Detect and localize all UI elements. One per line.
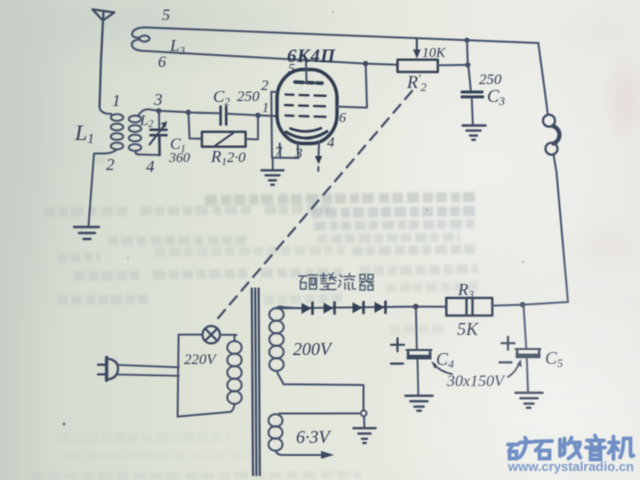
transformer core: [252, 289, 260, 476]
ground (C5): [516, 393, 543, 408]
glyph 音: [586, 436, 605, 460]
svg-text:6·3V: 6·3V: [296, 427, 332, 447]
C5 minus sign: [500, 361, 512, 363]
wire R3 right lead: [492, 304, 522, 307]
transformer secondary 200V winding: [269, 308, 283, 371]
tube pin 3 lead: [297, 144, 300, 158]
antenna: [93, 9, 115, 107]
tap terminal circle: [361, 410, 367, 416]
junction dot line A to C3 branch: [464, 38, 469, 43]
diode D1: [302, 303, 313, 314]
wire C4 branch down: [415, 307, 418, 350]
glyph 器: [360, 275, 374, 291]
potentiometer R2' body: [398, 60, 438, 72]
transformer 6.3V winding: [269, 414, 283, 450]
tube grid rows: [285, 95, 326, 117]
glyph 矿: [508, 438, 532, 459]
wire antenna to L1 top: [100, 107, 112, 114]
wire link lineA to C3 node: [466, 40, 469, 65]
tube plate lead pin 5: [305, 60, 308, 82]
wire to C2 left plate: [188, 112, 219, 115]
svg-text:200V: 200V: [293, 339, 333, 359]
tube plate (anode): [295, 82, 322, 83]
glyph 流: [339, 274, 356, 290]
wire C4 to ground: [417, 360, 420, 395]
svg-text:250: 250: [237, 89, 260, 105]
diode D4: [375, 302, 386, 313]
potentiometer arrow onto R2': [413, 38, 421, 58]
ground (C3): [463, 126, 486, 140]
capacitor C3: [462, 92, 483, 97]
wire 6.3V bottom with heater arrow: [276, 451, 322, 455]
glyph 石: [534, 441, 552, 459]
primary loop with lamp: [178, 335, 231, 417]
wire rectifier row: [274, 307, 416, 309]
svg-text:4: 4: [146, 157, 155, 176]
glyph 机: [609, 437, 634, 460]
svg-text:5: 5: [162, 7, 170, 24]
ground (heater tap): [354, 428, 376, 443]
tube 6К4П envelope: [277, 70, 337, 144]
glyph 收: [560, 438, 581, 459]
transformer primary winding: [227, 335, 241, 412]
wire L1 bottom to ground: [89, 150, 118, 227]
svg-text:6: 6: [158, 54, 166, 71]
wire L2 bottom to C1 bottom rail: [136, 151, 160, 156]
wire C3 to ground: [472, 98, 473, 125]
svg-text:6: 6: [339, 111, 346, 126]
capacitor C5 electrolytic: [516, 349, 541, 358]
wire 200V bottom to tap: [277, 371, 364, 411]
capacitor C2: [221, 107, 227, 125]
svg-text:5: 5: [288, 62, 295, 77]
glyph 整: [320, 273, 336, 290]
wire 200V top to rectifier: [277, 307, 302, 309]
wire L2 top to node 3: [138, 109, 159, 116]
watermark 矿石收音机 (hand-drawn glyphs, blue): [508, 436, 634, 460]
coil L3 hairpin: [132, 27, 150, 51]
tube pin 4 lead with heater arrow: [318, 142, 320, 156]
resistor R3: [446, 298, 492, 316]
svg-text:4: 4: [327, 135, 335, 151]
diode D3: [353, 302, 364, 313]
junction dot R3 right: [520, 302, 526, 308]
wire R2' right lead: [438, 64, 468, 66]
photo specks: [62, 11, 524, 426]
junction dot R3 left: [413, 304, 419, 310]
glyph 硒: [299, 275, 318, 289]
photo exposure lightening bottom-right: [430, 225, 640, 455]
wire line A corner down to phones: [538, 43, 548, 115]
C5 plus sign: [502, 337, 515, 350]
wire tap to ground: [363, 416, 365, 427]
tube cathode arc: [291, 128, 322, 131]
wire joining pins 7,3,2: [272, 157, 298, 159]
wire C5 to ground: [527, 358, 528, 392]
tube pin 6 lead to screen wire: [337, 64, 367, 107]
junction dot plate/screen node: [363, 61, 368, 66]
label 硒整流器 (selenium rectifier, hand-drawn glyphs): [299, 273, 374, 290]
tube pin 2 lead: [271, 92, 277, 158]
ground (C4): [406, 396, 433, 411]
coil L1: [111, 114, 123, 149]
C4 plus sign: [391, 338, 404, 351]
30x150V callout arrows: [431, 359, 521, 377]
svg-text:1: 1: [262, 101, 269, 116]
mains plug: [98, 357, 118, 380]
node 1 junction dot: [255, 113, 260, 118]
wire node3 down to C1: [158, 111, 160, 128]
faint show-through text rows: [30, 160, 478, 476]
wire mains cord: [118, 365, 179, 367]
resistor R1: [202, 132, 246, 147]
wire R1 branch left vertical: [189, 113, 202, 139]
svg-text:7: 7: [275, 145, 283, 160]
C4 minus sign: [391, 363, 403, 365]
svg-text:R12·0: R12·0: [210, 147, 246, 168]
svg-text:360: 360: [168, 151, 190, 166]
wire L3 pin6 line to plate node (line B): [146, 51, 398, 65]
svg-text:220V: 220V: [184, 352, 218, 368]
capacitor C4 electrolytic: [407, 350, 432, 359]
node dot R2'/C3: [465, 62, 470, 67]
svg-text:1: 1: [112, 91, 121, 110]
svg-text:3: 3: [294, 146, 303, 162]
pilot lamp: [203, 326, 220, 343]
tube pin 7 lead: [279, 144, 282, 158]
ground (tube cathode): [262, 170, 284, 185]
ground (antenna coil): [74, 227, 99, 239]
svg-text:www.crystalradio.cn: www.crystalradio.cn: [507, 459, 634, 474]
coil L2: [129, 116, 141, 151]
wire 6.3V top lead: [279, 412, 361, 414]
dashed link tube heater to lamp: [216, 91, 412, 321]
variable capacitor C1: [150, 121, 168, 155]
wire C5 branch down: [524, 305, 527, 349]
node 3 junction dot: [156, 108, 161, 113]
wire L3 pin5 top line (line A): [150, 28, 538, 43]
svg-text:2: 2: [261, 78, 269, 94]
svg-text:2: 2: [106, 155, 115, 174]
wire to tube ground: [272, 158, 274, 170]
wire node 1 to tube grid: [258, 115, 278, 116]
wire R1 right to node 1: [246, 115, 258, 139]
headphone: [543, 115, 559, 155]
svg-text:3: 3: [153, 90, 163, 109]
node junction dot (C2/R1 left): [186, 110, 191, 115]
diode D2: [324, 302, 335, 313]
wire phones down right rail: [523, 155, 568, 305]
wire C3 node down: [468, 65, 471, 90]
wire node3 to C2 node: [159, 111, 189, 113]
wire R3 left lead: [416, 306, 447, 308]
svg-text:10K: 10K: [422, 46, 446, 61]
wire C2 right to node 1: [228, 114, 259, 116]
